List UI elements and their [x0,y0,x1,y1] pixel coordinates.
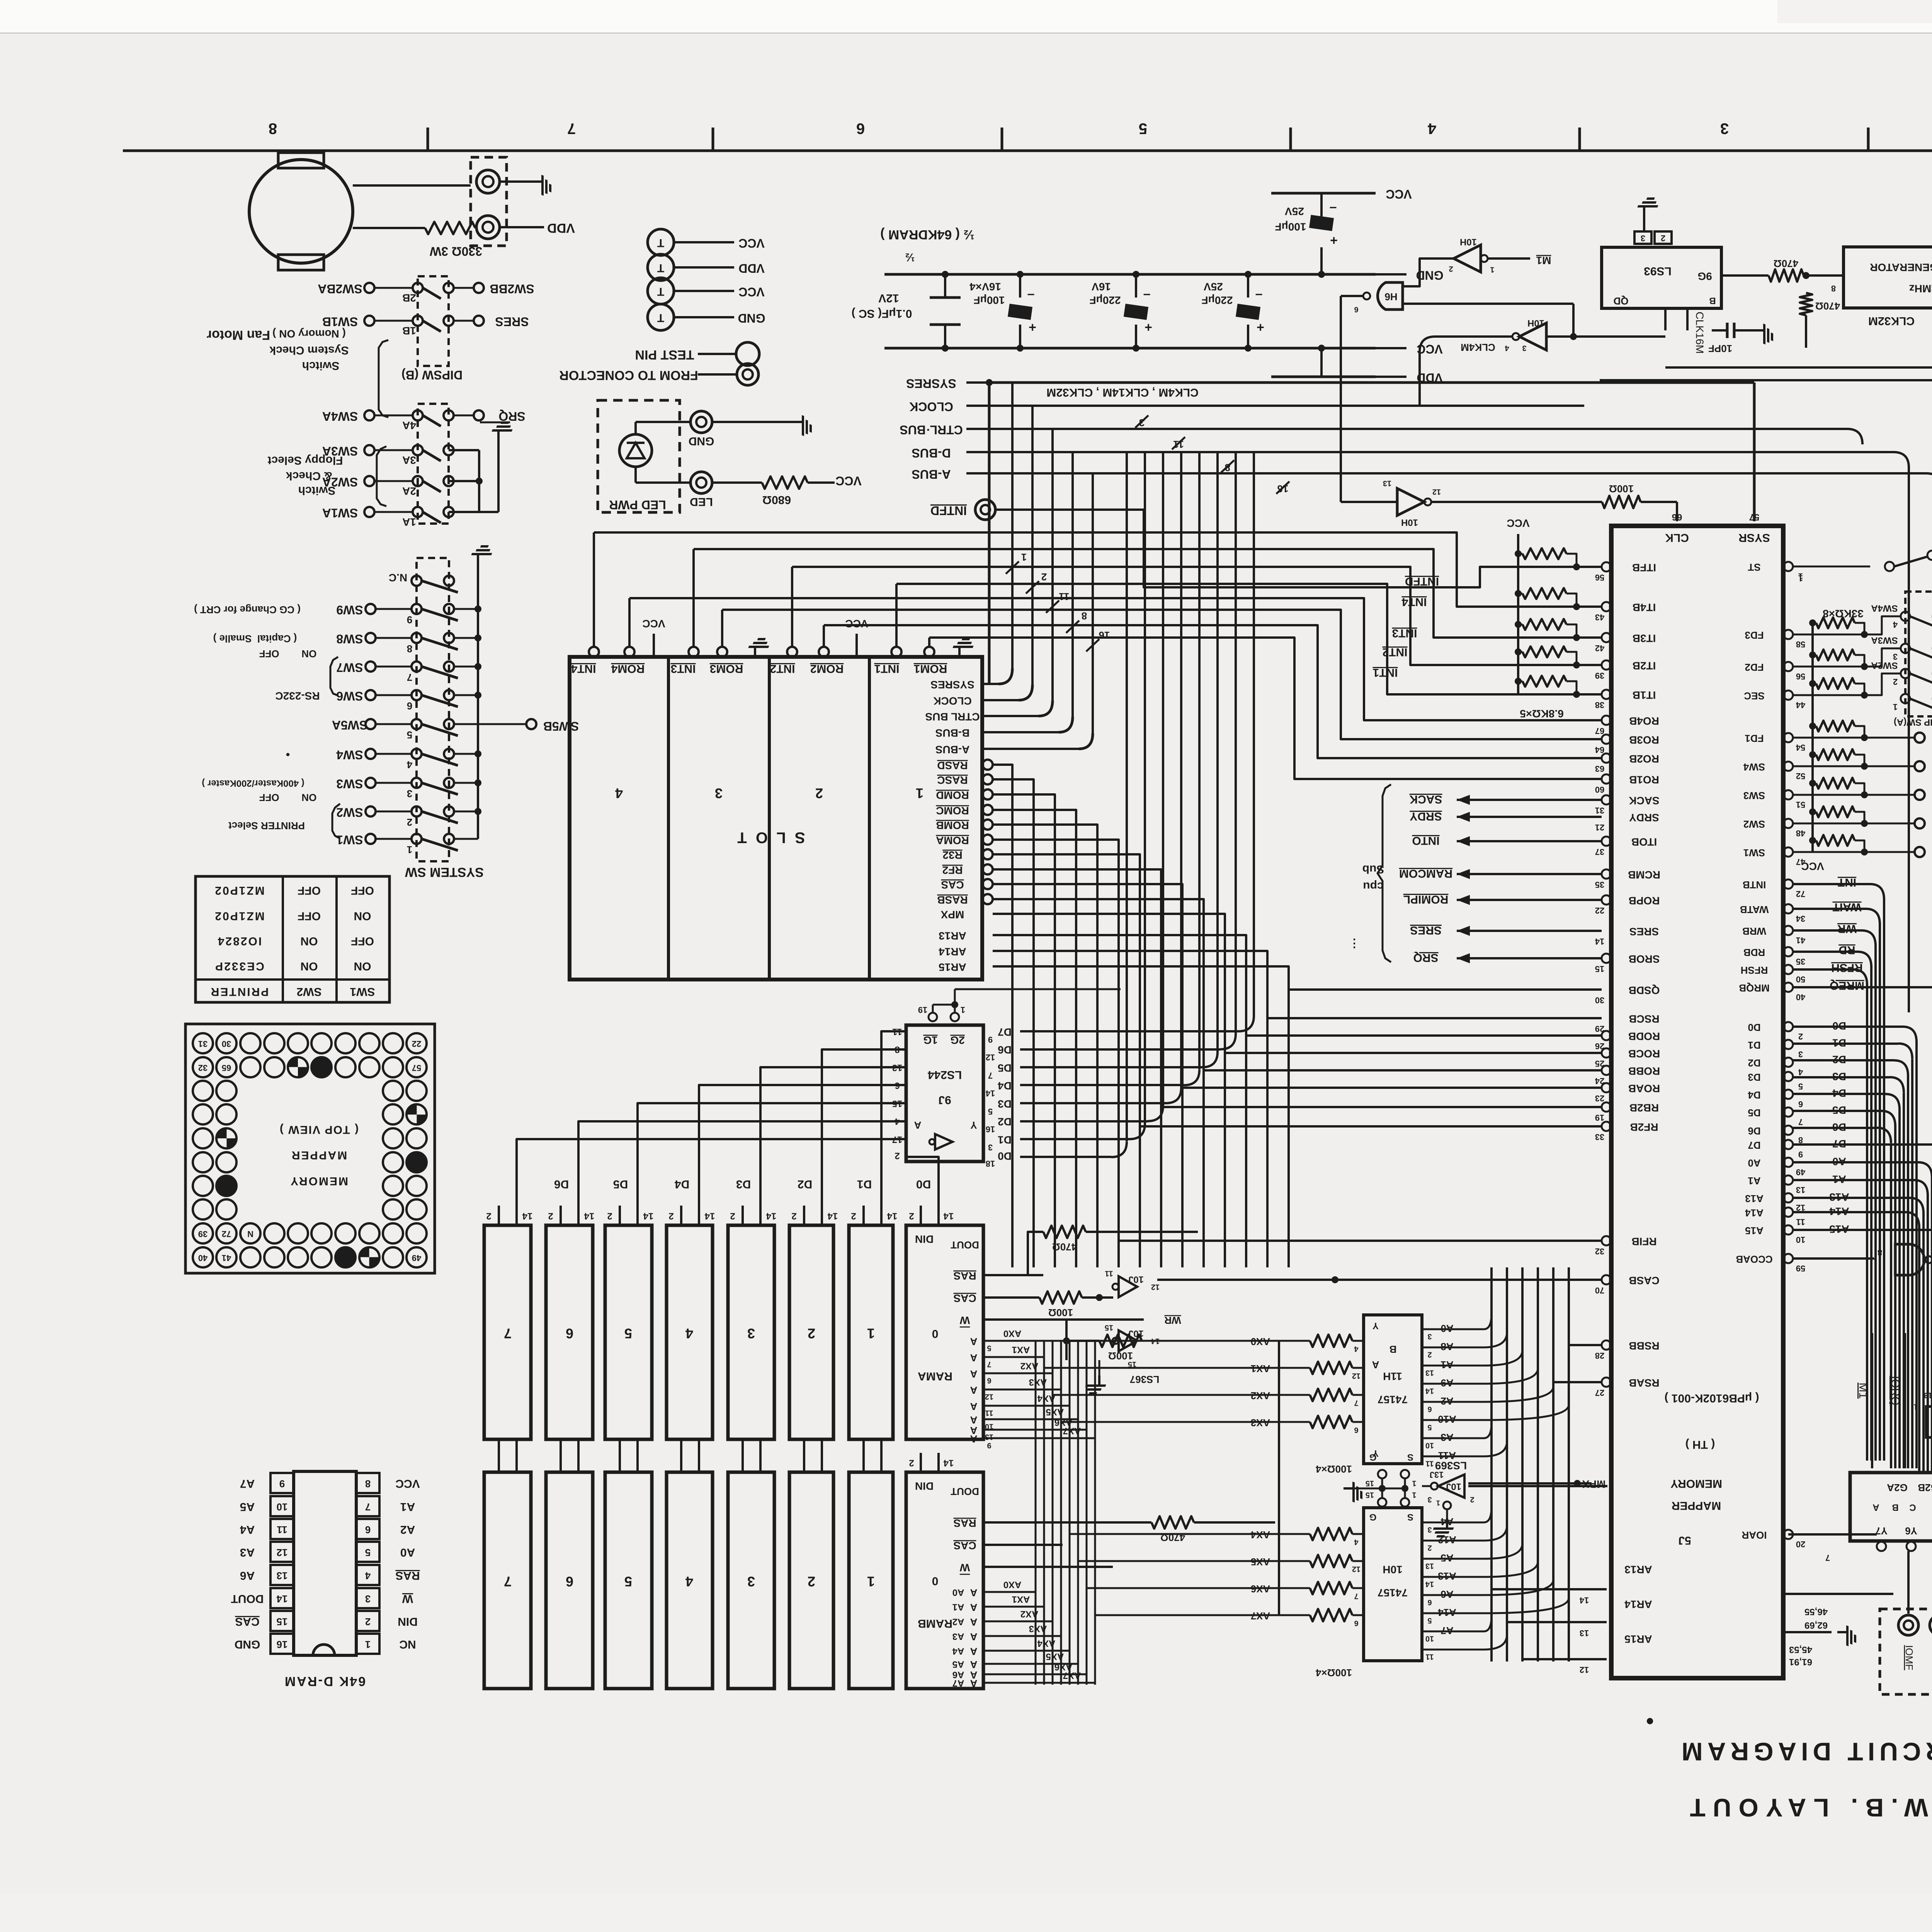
svg-text:12: 12 [986,1053,995,1062]
svg-text:SW4A: SW4A [322,410,358,423]
svg-text:1: 1 [1798,573,1803,583]
svg-text:7: 7 [1825,1553,1830,1563]
svg-text:AR14: AR14 [1624,1599,1652,1611]
svg-text:ON: ON [301,960,318,973]
svg-text:2B: 2B [402,292,416,304]
svg-text:8: 8 [365,1478,371,1490]
svg-text:RO4B: RO4B [1629,715,1659,727]
svg-text:7: 7 [504,1325,512,1341]
svg-text:15: 15 [1366,1491,1374,1499]
svg-text:100μF: 100μF [974,294,1005,306]
svg-text:220μF: 220μF [1090,294,1121,306]
svg-text:1A: 1A [402,516,416,528]
svg-text:6: 6 [1354,1426,1358,1434]
svg-text:A: A [970,1368,977,1380]
svg-text:GND: GND [738,311,765,325]
svg-text:WR: WR [1164,1315,1181,1326]
svg-text:43: 43 [1595,612,1604,622]
svg-text:CAS: CAS [235,1615,259,1628]
svg-text:14: 14 [827,1211,838,1221]
svg-text:A1: A1 [1440,1359,1453,1371]
svg-text:12: 12 [985,1393,993,1401]
svg-text:D5: D5 [1748,1107,1760,1119]
svg-text:RO3B: RO3B [1629,734,1659,746]
svg-text:ROM2: ROM2 [810,662,844,675]
svg-text:5: 5 [1139,120,1147,137]
svg-text:CLK4M: CLK4M [1461,342,1495,353]
svg-text:A9: A9 [1440,1377,1453,1389]
svg-text:V​CC: V​CC [1386,187,1412,201]
svg-text:CE332P: CE332P [214,960,264,973]
svg-text:13: 13 [1425,1369,1434,1377]
svg-text:A: A [970,1433,977,1445]
svg-text:2: 2 [407,816,412,828]
svg-text:1: 1 [867,1325,875,1341]
svg-text:6: 6 [1427,1598,1432,1607]
svg-text:15: 15 [1595,964,1604,974]
svg-text:AX0: AX0 [1003,1580,1022,1590]
svg-text:–: – [1255,288,1263,303]
svg-text:FD2: FD2 [1745,662,1764,673]
svg-text:+: + [1257,320,1264,335]
svg-text:⋮: ⋮ [1349,937,1360,950]
svg-text:35: 35 [1595,880,1604,889]
svg-text:V​CC: V​CC [738,236,765,250]
svg-text:V​CC: V​CC [738,285,765,299]
svg-text:10H: 10H [1527,318,1544,328]
svg-text:11: 11 [985,1409,993,1417]
svg-text:D2: D2 [798,1178,812,1190]
svg-text:2: 2 [548,1211,553,1221]
svg-text:14: 14 [766,1211,776,1221]
svg-text:TEST PIN: TEST PIN [635,347,694,362]
svg-text:MZ1P02: MZ1P02 [214,884,264,897]
svg-text:G: G [1369,1512,1377,1522]
svg-text:H6: H6 [1384,291,1397,303]
svg-text:ROBB: ROBB [1628,1065,1660,1077]
svg-text:4: 4 [1798,1067,1803,1077]
svg-text:30: 30 [1595,995,1604,1005]
svg-text:IT2B: IT2B [1633,660,1656,672]
svg-text:7: 7 [1798,1117,1803,1127]
svg-text:3: 3 [365,1593,371,1605]
svg-text:4: 4 [685,1573,693,1589]
svg-text:34: 34 [1796,914,1805,923]
svg-text:AR14: AR14 [939,946,966,958]
svg-text:A0: A0 [400,1546,415,1559]
svg-text:13. CIRCUIT DIAGRAM & P.W.B. L: 13. CIRCUIT DIAGRAM & P.W.B. LAYOUT [1682,1794,1932,1822]
svg-text:cpu: cpu [1363,880,1383,893]
svg-text:3: 3 [1522,344,1526,352]
svg-text:14: 14 [522,1211,532,1221]
svg-text:RODB: RODB [1628,1031,1660,1043]
svg-text:41: 41 [222,1253,231,1263]
svg-text:RAS: RAS [953,1270,976,1282]
svg-text:8: 8 [407,643,412,655]
svg-text:2: 2 [1893,677,1898,687]
svg-text:70: 70 [1595,1286,1604,1295]
svg-text:SYSRES: SYSRES [906,377,956,391]
svg-text:2: 2 [1661,233,1665,243]
svg-text:R32: R32 [942,849,962,861]
svg-text:AR13: AR13 [939,930,966,942]
svg-text:10J: 10J [1446,1481,1461,1492]
svg-text:CLK4M , CLK14M , CLK32M: CLK4M , CLK14M , CLK32M [1046,386,1198,399]
svg-text:RO2B: RO2B [1629,753,1659,765]
svg-text:3: 3 [1893,652,1898,662]
svg-text:INT3: INT3 [1392,627,1417,639]
svg-text:A6: A6 [240,1569,255,1582]
svg-text:D3: D3 [998,1098,1012,1110]
svg-text:CLK: CLK [1665,531,1689,544]
svg-text:RF2: RF2 [942,864,963,876]
svg-text:11: 11 [1425,1653,1434,1661]
svg-text:D0: D0 [998,1150,1012,1162]
svg-text:22: 22 [1595,906,1604,915]
svg-text:A2: A2 [1440,1395,1453,1407]
svg-text:OFF: OFF [298,910,321,922]
svg-text:30: 30 [222,1039,231,1049]
svg-text:100Ω: 100Ω [1609,483,1634,495]
svg-text:SW6: SW6 [336,689,363,703]
svg-text:11: 11 [277,1524,287,1536]
svg-text:1: 1 [916,785,923,801]
svg-text:SW2BB: SW2BB [490,282,534,296]
svg-text:M1: M1 [1857,1383,1869,1399]
svg-text:2: 2 [1798,1032,1803,1041]
svg-text:63: 63 [1595,764,1604,774]
svg-text:ON: ON [354,960,371,973]
svg-text:4: 4 [1505,344,1509,352]
svg-text:7: 7 [1354,1592,1358,1600]
svg-text:13: 13 [1796,1185,1805,1195]
svg-text:MREQ: MREQ [1830,979,1864,992]
svg-text:72: 72 [1796,889,1805,899]
svg-text:RB2B: RB2B [1629,1102,1659,1114]
svg-text:WATB: WATB [1740,904,1769,915]
svg-text:A4: A4 [952,1646,964,1656]
svg-text:SW2BA: SW2BA [318,282,362,296]
svg-text:57: 57 [412,1063,421,1073]
svg-text:6: 6 [407,700,412,712]
svg-text:+: + [1330,233,1338,248]
svg-text:INTO: INTO [1412,834,1439,847]
svg-text:FROM TO CONECTOR: FROM TO CONECTOR [559,368,698,383]
svg-text:0: 0 [932,1575,939,1587]
svg-text:25V: 25V [1285,206,1304,218]
svg-text:D4: D4 [1748,1089,1761,1101]
svg-text:13: 13 [277,1570,288,1582]
svg-text:64K D-RAM: 64K D-RAM [284,1674,366,1689]
svg-text:10: 10 [1425,1441,1434,1450]
svg-text:RAMB: RAMB [918,1617,952,1630]
svg-text:IT1B: IT1B [1633,689,1656,701]
svg-text:V​CC: V​CC [1507,517,1529,529]
svg-text:SEC: SEC [1744,690,1765,702]
svg-text:8: 8 [1082,610,1087,622]
svg-text:S: S [1407,1512,1413,1522]
svg-text:A: A [970,1336,977,1347]
svg-text:5: 5 [624,1573,632,1589]
svg-text:A13: A13 [1438,1570,1456,1582]
svg-text:39: 39 [198,1229,207,1239]
svg-text:D7: D7 [998,1026,1012,1038]
svg-text:INTFD: INTFD [930,504,967,518]
svg-text:2: 2 [791,1211,796,1221]
svg-text:AR13: AR13 [1624,1564,1652,1576]
svg-text:A5: A5 [952,1659,964,1670]
svg-text:SW3: SW3 [336,777,363,791]
svg-text:SACK: SACK [1629,795,1659,807]
svg-text:40: 40 [1796,992,1805,1002]
svg-text:A14: A14 [1745,1207,1764,1219]
svg-text:100Ω: 100Ω [1108,1350,1133,1362]
svg-text:QSDB: QSDB [1629,985,1660,997]
svg-text:27: 27 [1595,1388,1604,1398]
svg-text:2: 2 [1470,1495,1474,1504]
svg-text:B: B [1709,296,1716,306]
svg-text:RAMA: RAMA [918,1370,952,1383]
svg-text:SW5A: SW5A [332,718,367,732]
svg-text:6: 6 [1798,1099,1803,1109]
svg-text:A14: A14 [1438,1607,1456,1618]
svg-text:ITFB: ITFB [1632,562,1656,574]
svg-text:NC: NC [399,1638,416,1651]
svg-text:6: 6 [856,120,865,137]
svg-text:RS-232C: RS-232C [275,690,320,702]
svg-text:SW2: SW2 [296,985,321,998]
svg-text:13: 13 [985,1433,993,1441]
svg-text:B-BUS: B-BUS [935,727,970,739]
svg-text:2: 2 [365,1616,371,1628]
svg-text:A15: A15 [1745,1225,1764,1236]
svg-text:35: 35 [1796,957,1805,966]
svg-text:ROM3: ROM3 [710,662,743,675]
svg-text:DIN: DIN [915,1480,934,1492]
svg-text:SW3A: SW3A [1871,635,1898,646]
svg-text:50: 50 [1796,975,1805,984]
svg-text:6.8KΩ×5: 6.8KΩ×5 [1520,708,1564,720]
svg-text:SW4: SW4 [1743,761,1765,773]
svg-text:2: 2 [909,1458,914,1468]
svg-text:100Ω×4: 100Ω×4 [1316,1463,1352,1475]
svg-text:2: 2 [808,1325,815,1341]
svg-text:A: A [970,1384,977,1396]
svg-text:12: 12 [1352,1372,1361,1380]
svg-text:A: A [1872,1502,1879,1513]
svg-text:6: 6 [1427,1405,1432,1413]
svg-text:FD3: FD3 [1745,629,1764,641]
svg-text:CASB: CASB [1629,1275,1659,1287]
svg-text:D1: D1 [1748,1039,1760,1051]
svg-text:OFF: OFF [351,884,374,897]
svg-text:& Check: & Check [286,469,332,482]
svg-text:SW1A: SW1A [322,506,358,520]
svg-text:2: 2 [486,1211,491,1221]
svg-text:10: 10 [1425,1634,1434,1643]
svg-text:74157: 74157 [1378,1394,1408,1406]
svg-text:2: 2 [607,1211,612,1221]
svg-text:72: 72 [222,1229,231,1239]
svg-text:59: 59 [1796,1264,1805,1273]
svg-text:DOUT: DOUT [951,1486,979,1497]
svg-text:7: 7 [365,1501,371,1513]
svg-text:A: A [970,1414,977,1426]
svg-text:32: 32 [198,1063,207,1073]
svg-text:41: 41 [1796,935,1805,945]
svg-text:MRQB: MRQB [1739,982,1769,994]
svg-text:6: 6 [566,1573,573,1589]
svg-text:SW4A: SW4A [1871,603,1898,614]
svg-text:A7: A7 [952,1678,964,1689]
svg-text:AX1: AX1 [1012,1594,1030,1605]
svg-text:System Check: System Check [269,344,349,357]
svg-text:RASD: RASD [937,760,968,772]
svg-text:5: 5 [987,1344,991,1352]
svg-text:B: B [1892,1502,1898,1513]
svg-text:GND: GND [689,435,714,447]
svg-text:16: 16 [1099,629,1110,641]
svg-text:A: A [970,1602,977,1613]
svg-text:SYSRES: SYSRES [930,679,975,691]
svg-text:7: 7 [1354,1399,1358,1407]
svg-text:+: + [1029,320,1036,335]
svg-text:14: 14 [1595,937,1604,946]
svg-text:2G: 2G [950,1034,964,1046]
svg-text:13J: 13J [1430,1470,1444,1480]
svg-text:4: 4 [685,1325,693,1341]
svg-text:( Nomory ON ): ( Nomory ON ) [272,328,346,340]
svg-text:44: 44 [1796,700,1805,710]
svg-text:1: 1 [1913,1403,1918,1411]
svg-text:12V: 12V [878,292,899,304]
svg-text:•: • [1646,1708,1654,1734]
svg-text:A8: A8 [1440,1341,1453,1352]
svg-text:2: 2 [668,1211,673,1221]
svg-text:9G: 9G [1697,270,1712,282]
svg-text:7: 7 [407,672,412,683]
svg-text:SRES: SRES [495,315,529,329]
svg-text:A3: A3 [952,1631,964,1642]
svg-text:9: 9 [1798,1150,1803,1159]
svg-text:4: 4 [1893,620,1898,629]
svg-text:D4: D4 [998,1080,1012,1092]
svg-text:D2: D2 [998,1116,1012,1128]
svg-text:IOMF: IOMF [1903,1645,1915,1670]
svg-text:14: 14 [276,1593,287,1605]
svg-text:A: A [970,1401,977,1412]
svg-text:W: W [959,1315,970,1327]
svg-text:B: B [1389,1344,1397,1355]
svg-text:8: 8 [1831,284,1836,293]
svg-text:14: 14 [1425,1580,1434,1588]
svg-text:4A: 4A [402,420,416,432]
svg-text:A1: A1 [1748,1175,1760,1187]
svg-text:Y6: Y6 [1905,1525,1917,1537]
svg-text:5: 5 [365,1547,371,1558]
svg-text:220μF: 220μF [1202,294,1233,306]
svg-text:2A: 2A [402,485,416,497]
svg-text:CCOAB: CCOAB [1736,1253,1772,1265]
svg-text:D6: D6 [998,1044,1012,1056]
svg-text:SW2: SW2 [336,806,363,820]
svg-text:INT: INT [1838,876,1856,889]
svg-text:+: + [1145,320,1152,335]
svg-text:DOUT: DOUT [231,1592,264,1605]
svg-text:ITOB: ITOB [1631,836,1657,848]
svg-text:100Ω: 100Ω [1048,1307,1073,1318]
svg-text:13: 13 [1580,1628,1589,1638]
svg-text:62,69: 62,69 [1804,1620,1828,1631]
svg-text:16: 16 [986,1124,995,1134]
svg-text:DIN: DIN [915,1233,934,1245]
svg-text:T: T [657,285,664,298]
svg-text:CAS: CAS [953,1293,976,1304]
svg-text:10H: 10H [1401,517,1418,528]
svg-text:S: S [1407,1452,1413,1463]
svg-text:A: A [970,1659,977,1670]
svg-text:AX1: AX1 [1012,1345,1030,1355]
svg-text:0: 0 [932,1327,939,1340]
svg-text:N: N [247,1229,253,1239]
svg-text:11: 11 [1425,1459,1434,1468]
svg-text:13: 13 [1425,1562,1434,1570]
svg-text:PRINTER: PRINTER [210,985,269,998]
svg-text:Y: Y [1372,1321,1379,1331]
svg-text:38: 38 [1595,700,1604,710]
svg-text:56: 56 [1796,672,1805,681]
svg-text:14: 14 [943,1211,954,1221]
svg-text:RFSH: RFSH [1831,961,1863,974]
svg-text:CTRL·BUS: CTRL·BUS [900,423,963,437]
svg-text:N.C: N.C [389,572,407,584]
svg-text:3: 3 [407,788,412,799]
svg-text:ROM1: ROM1 [914,662,947,675]
svg-text:2: 2 [895,1151,900,1161]
svg-text:S L O T: S L O T [735,829,805,846]
svg-text:SW7: SW7 [336,661,363,675]
svg-text:3: 3 [1427,1495,1432,1504]
svg-text:½: ½ [905,251,915,264]
svg-text:1: 1 [961,1005,965,1015]
svg-text:8: 8 [1878,1248,1882,1257]
svg-text:10H: 10H [1383,1564,1402,1576]
svg-text:10H: 10H [1460,237,1477,247]
svg-text:INTFD: INTFD [1405,575,1439,588]
svg-text:GND: GND [235,1638,260,1651]
svg-text:7: 7 [504,1573,512,1589]
svg-text:DIN: DIN [398,1615,418,1628]
svg-text:2: 2 [1041,571,1047,583]
svg-text:56: 56 [1595,573,1604,582]
svg-text:Fan Motor: Fan Motor [207,328,270,342]
svg-text:19: 19 [918,1005,927,1015]
svg-text:( TOP VIEW ): ( TOP VIEW ) [279,1123,359,1136]
svg-text:•: • [286,748,290,761]
svg-text:3: 3 [747,1573,755,1589]
svg-text:A: A [1372,1359,1379,1371]
svg-text:SW1B: SW1B [322,315,358,329]
svg-text:IT4B: IT4B [1633,602,1656,614]
svg-text:6: 6 [365,1524,371,1536]
svg-text:32MHz: 32MHz [1909,283,1932,295]
svg-text:5: 5 [988,1107,993,1116]
svg-text:OFF: OFF [298,884,321,897]
svg-text:SRQ: SRQ [1413,951,1438,964]
svg-text:RAS: RAS [953,1517,976,1529]
svg-text:RASC: RASC [937,774,968,786]
svg-text:V​CC: V​CC [395,1477,420,1490]
